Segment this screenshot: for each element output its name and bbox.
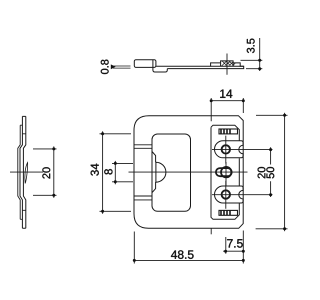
- dimension text 50: [266, 167, 274, 178]
- top view: boss internal step edges: [211, 63, 244, 66]
- dimension text 3.5: [247, 39, 255, 53]
- front view: fold lines left top: [134, 145, 152, 149]
- dimension 3.5 extension lines: [241, 60, 263, 68]
- dimension 20 (side) extension lines: [33, 149, 57, 195]
- dimension 14 line: [211, 100, 243, 102]
- front view: main horizontal centerline: [129, 171, 248, 173]
- dimension 7.5 extension lines: [242, 231, 244, 264]
- front view: raised strip outline: [211, 125, 239, 219]
- dimension 20 (side) dots: [52, 147, 55, 196]
- front view: strip edge tick below plate: [210, 228, 212, 234]
- dimension 3.5 dots: [258, 59, 261, 70]
- dimension 0.8 extension lines: [113, 66, 131, 68]
- front view: middle circle: [221, 167, 231, 177]
- top view: boss centerline: [226, 54, 228, 75]
- dimension 50 dots: [283, 114, 286, 231]
- dimension 48.5 line: [134, 259, 243, 261]
- dimension 8 line: [114, 161, 116, 184]
- dimension 14 dots: [210, 99, 245, 102]
- dimension 7.5 dots: [224, 250, 245, 253]
- dimension 20 (right) line: [270, 147, 272, 197]
- top view: hook rect B: [153, 67, 167, 72]
- front view: top serration rect: [219, 129, 238, 134]
- dimension 34 dots: [101, 132, 104, 213]
- dimension text 48.5: [171, 250, 194, 259]
- dimension 50 extension lines: [256, 115, 288, 229]
- side view: raised strip bar front line: [18, 125, 20, 219]
- side view: horizontal centerline: [10, 171, 43, 173]
- dimension 7.5 line: [223, 250, 243, 252]
- side view: sheet back profile line: [23, 116, 25, 228]
- front view: top hole crosshair: [212, 136, 273, 164]
- top view: flange rect A: [134, 60, 156, 68]
- side view: sheet front profile line: [20, 116, 22, 228]
- front view: bottom hole ring: [222, 190, 230, 198]
- front view: inner recessed panel: [152, 134, 191, 211]
- dimension text 8: [104, 169, 112, 174]
- dimension 20 (right) dots: [269, 148, 272, 196]
- front view: bottom hole crosshair: [212, 181, 273, 254]
- front view: middle obround slot: [216, 168, 232, 176]
- top view: sheet top outline with boss steps: [156, 61, 244, 69]
- side view: flange ticks: [22, 134, 25, 211]
- dimension 8 dots: [114, 162, 117, 183]
- dimension 34 extension lines: [100, 134, 132, 212]
- dimension text 0.8: [101, 60, 109, 74]
- front view: fold lines left bottom: [134, 196, 152, 200]
- front view: centre bump semicircle: [156, 162, 166, 182]
- dimension 50 line: [284, 113, 286, 231]
- dimension text 7.5: [227, 239, 243, 247]
- front view: plate outline: [134, 116, 243, 229]
- front view: bottom keyhole stadium with notch: [215, 186, 244, 203]
- dimension 14 extension lines: [211, 98, 243, 121]
- dimension 8 extension lines: [112, 163, 133, 181]
- dimension 48.5 extension line left: [133, 232, 135, 264]
- side view: top and bottom end caps: [22, 116, 25, 228]
- front view: top serration bars: [221, 129, 230, 134]
- side view: centre bump crescent: [25, 163, 28, 184]
- dimension 0.8 arrows: [111, 64, 116, 69]
- dimension 34 line: [102, 131, 104, 214]
- dimension text 20 side: [42, 167, 50, 178]
- front view: middle vertical centerline: [225, 162, 227, 186]
- dimension text 20 right: [258, 167, 266, 178]
- dimension text 14: [220, 90, 232, 98]
- dimension 3.5 line: [259, 38, 261, 71]
- top view: fold line tick: [152, 60, 154, 68]
- front view: left tab: [152, 152, 156, 193]
- dimension text 34: [91, 164, 99, 176]
- dimension 48.5 dots: [133, 259, 245, 262]
- front view: bottom serration bars: [221, 210, 230, 215]
- dimension 20 (side) line: [53, 146, 55, 197]
- front view: top hole ring: [222, 145, 230, 153]
- side view: strip bar end caps: [20, 125, 22, 219]
- front view: bottom serration rect: [219, 210, 238, 215]
- front view: top keyhole stadium with notch: [215, 141, 244, 158]
- top view: boss hatch: [221, 61, 235, 66]
